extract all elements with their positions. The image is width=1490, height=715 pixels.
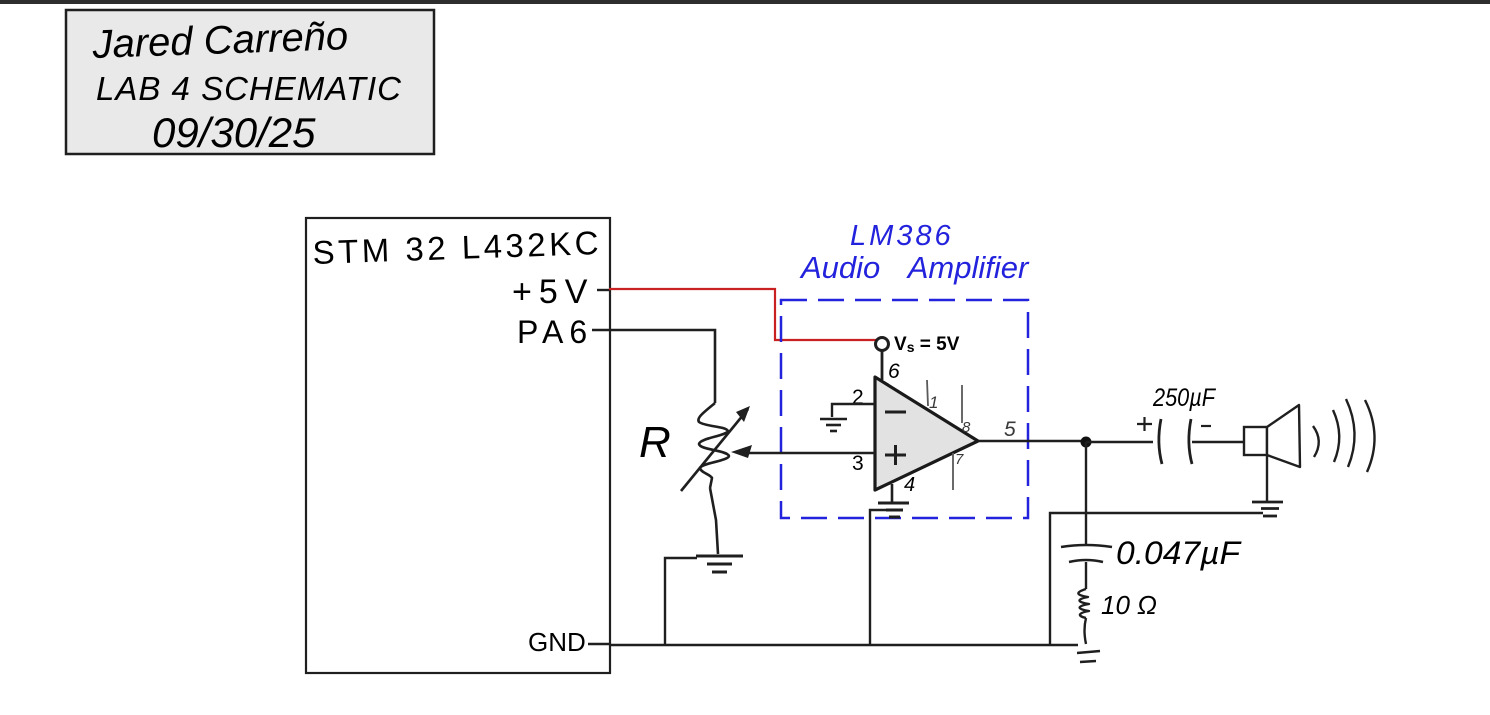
ground at R2 / bus end [1077,651,1100,662]
wire C1 to speaker [1192,441,1244,443]
wire op-amp output pin 5 [979,440,1086,442]
speaker LS1 body [1244,427,1267,455]
svg-text:Jared Carreño: Jared Carreño [91,14,349,67]
capacitor C1 minus sign [1201,425,1211,427]
LM386 dashed boundary [781,300,1028,518]
op-amp minus symbol [885,411,906,414]
wire input to pin 3 with wiper arrow [740,452,875,455]
svg-text:LM386: LM386 [850,220,954,252]
wire pin 4 to ground [891,484,894,502]
wire GND bus [609,644,1078,647]
svg-text:GND: GND [528,627,586,657]
svg-text:09/30/25: 09/30/25 [152,109,316,156]
svg-text:250µF: 250µF [1152,384,1216,412]
wire junction to C1 [1086,441,1153,443]
wire PA6 to potentiometer top [609,330,715,403]
svg-text:LAB 4 SCHEMATIC: LAB 4 SCHEMATIC [96,70,402,107]
pin 8 stub [961,385,963,423]
ground at speaker [1252,502,1283,516]
svg-text:10 Ω: 10 Ω [1101,590,1157,620]
pin tick PA6 [592,329,609,331]
svg-text:6: 6 [888,360,900,383]
pin 1 stub [927,380,928,406]
op-amp U2 LM386 triangle [875,377,978,490]
svg-text:8: 8 [962,419,971,436]
wire speaker to ground [1266,455,1268,501]
svg-text:2: 2 [852,386,864,409]
svg-text:0.047µF: 0.047µF [1116,535,1243,571]
speaker sound waves [1313,399,1375,472]
capacitor C1 250uF plus sign [1137,417,1152,431]
svg-text:3: 3 [852,452,864,475]
potentiometer arrow [681,409,748,491]
ground at pin 4 [878,503,909,517]
microcontroller U1 STM32L432KC box [306,218,610,673]
resistor R2 10 ohm (zigzag) [1078,589,1089,618]
wire +5V red to Vs [609,289,876,340]
capacitor C1 250uF plates [1159,419,1162,464]
pin 7 stub [952,453,954,490]
svg-text:+5V: +5V [512,273,594,311]
svg-text:4: 4 [904,474,915,496]
svg-text:PA6: PA6 [517,314,593,350]
wire riser GND bus to pin 4 ground [870,510,888,645]
op-amp plus symbol [885,445,906,465]
node Vs terminal circle [876,338,889,351]
svg-text:1: 1 [929,393,938,412]
svg-text:R: R [639,418,671,467]
svg-text:Vs = 5V: Vs = 5V [894,334,960,355]
junction node output [1081,437,1092,448]
ground at pin 2 [820,419,847,431]
title block box [66,10,434,154]
svg-text:5: 5 [1004,418,1016,441]
top scan bar (decorative) [0,0,1490,4]
wire Vs to op-amp pin 6 [881,351,884,380]
wire riser GND bus to pot ground [665,558,697,645]
wire pot bottom to ground [710,488,718,554]
pin tick +5V [597,289,609,291]
potentiometer R body (zigzag) [698,403,729,488]
svg-text:7: 7 [955,451,964,468]
wire pin 2 to ground [832,404,875,417]
pin tick GND [588,643,609,645]
svg-text:Audio Amplifier: Audio Amplifier [799,250,1030,285]
wire R2 to ground [1085,618,1087,644]
wire junction down to C2 [1085,442,1087,545]
svg-text:STM 32 L432KC: STM 32 L432KC [312,224,603,271]
speaker LS1 horn [1267,405,1300,467]
ground under potentiometer [696,556,743,572]
capacitor C2 0.047uF plates [1061,545,1112,562]
wire C2 to R2 [1085,562,1087,589]
wire speaker ground to GND bus riser [1050,513,1263,645]
